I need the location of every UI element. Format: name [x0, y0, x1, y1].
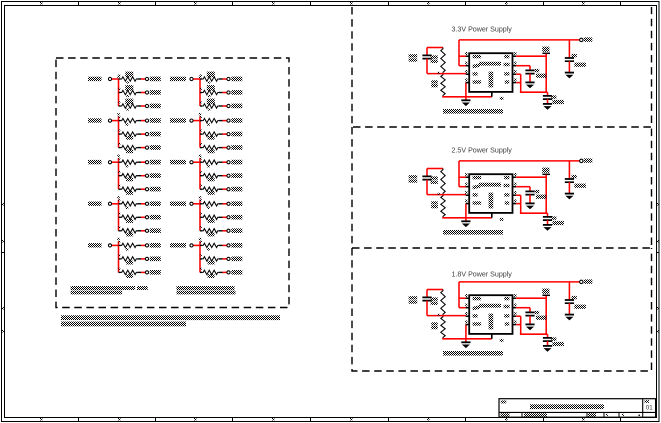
resistor R21 [200, 143, 219, 153]
node IN9 (input pin of resistor group 9) [88, 243, 112, 247]
ground (C2b) [525, 203, 534, 209]
wire (red trunk, group 9) [117, 238, 119, 273]
resistor R25 [200, 199, 219, 209]
capacitor C3d (input bulk, right) [565, 282, 586, 315]
wire (input to trunk, group 9) [112, 244, 119, 246]
wire (C1a top to divider top) [427, 47, 443, 49]
node OUT R11 [145, 215, 160, 220]
ground (C2d) [565, 194, 574, 200]
wire (R24 output) [219, 188, 227, 190]
wire (input rail, section 3) [459, 281, 580, 283]
1.8V supply enclosure (dashed) [352, 248, 652, 371]
wire (ground rail bottom, section 2) [442, 204, 492, 222]
node VIN3 (input pin) [580, 279, 593, 283]
node IN7 (input pin of resistor group 7) [88, 202, 112, 206]
wire (divider mid rail to U3 pin 3) [427, 314, 466, 316]
node OUT R16 [227, 77, 242, 82]
power flag VOUT1 [542, 47, 550, 54]
op-amp U3 (voltage regulator IC) [465, 294, 516, 334]
node OUT R15 [145, 270, 160, 275]
capacitor C3b (noise bypass) [525, 311, 546, 325]
wire (R27 output) [219, 230, 227, 232]
node IN8 (input pin of resistor group 8) [170, 202, 193, 206]
wire (R19 output) [219, 120, 227, 122]
wire (R8 output) [138, 175, 146, 177]
wire (input to trunk, group 4) [193, 120, 200, 122]
resistor array enclosure (dashed) [56, 58, 289, 308]
capacitor C3c (output bulk) [543, 334, 564, 346]
op-amp U1 (voltage regulator IC) [465, 52, 516, 92]
net label: U3 part number [443, 351, 503, 356]
node OUT R21 [227, 145, 242, 150]
node OUT R23 [227, 173, 242, 178]
resistor R11 [118, 213, 137, 223]
wire (input to trunk, group 6) [193, 161, 200, 163]
resistor R23 [200, 171, 219, 181]
wire (R6 output) [138, 147, 146, 149]
node OUT R5 [145, 132, 160, 137]
wire (input to trunk, group 10) [193, 244, 200, 246]
node OUT R4 [145, 118, 160, 123]
capacitor C2b (noise bypass) [525, 190, 546, 204]
wire (C2a top to divider top) [427, 168, 443, 170]
node IN2 (input pin of resistor group 2) [170, 77, 193, 81]
node OUT R20 [227, 132, 242, 137]
wire (output vertical, section 3) [545, 296, 547, 334]
wire (U3 pin 8 to output tap) [516, 297, 546, 299]
wire (R30 output) [219, 271, 227, 273]
node OUT R17 [227, 90, 242, 95]
resistor R30 [200, 268, 219, 278]
capacitor C1d (input bulk, right) [565, 40, 586, 73]
ground (section 1 left) [461, 100, 470, 106]
capacitor C1b (noise bypass) [525, 69, 546, 83]
wire (input rail, section 2) [459, 160, 580, 162]
wire (input to trunk, group 8) [193, 203, 200, 205]
wire (R12 output) [138, 230, 146, 232]
wire (input rail, section 1) [459, 39, 580, 41]
wire (R2 output) [138, 92, 146, 94]
resistor R2 [118, 85, 137, 97]
capacitor C1a (input bypass, left) [409, 48, 432, 74]
resistor R24 [200, 185, 219, 195]
wire (U2 pin 8 to output tap) [516, 176, 546, 178]
ground (C1b) [525, 82, 534, 88]
wire (R11 output) [138, 216, 146, 218]
node OUT R2 [145, 90, 160, 95]
wire (C3a top to divider top) [427, 289, 443, 291]
node VIN1 (input pin) [580, 37, 593, 41]
svg-text:2.5V Power Supply: 2.5V Power Supply [452, 147, 513, 155]
wire (R10 output) [138, 203, 146, 205]
node OUT R30 [227, 270, 242, 275]
capacitor C2a (input bypass, left) [409, 169, 432, 195]
svg-text:3.3V Power Supply: 3.3V Power Supply [452, 26, 513, 34]
resistor R8 [118, 171, 137, 181]
node IN5 (input pin of resistor group 5) [88, 160, 112, 164]
wire (U1 pin 8 to output tap) [516, 55, 546, 57]
node OUT R25 [227, 201, 242, 206]
resistor R16 [200, 72, 219, 84]
wire (red trunk, group 7) [117, 196, 119, 231]
wire (U1 tab to ground rail) [492, 92, 504, 100]
ground (C3d) [565, 315, 574, 321]
node OUT R24 [227, 187, 242, 192]
wire (red trunk, group 2) [199, 76, 201, 106]
capacitor C2d (input bulk, right) [565, 161, 586, 194]
wire (R16 output) [219, 78, 227, 80]
node OUT R14 [145, 257, 160, 262]
net label: U2 part number [443, 230, 503, 235]
resistor R13 [118, 241, 137, 251]
wire (R21 output) [219, 147, 227, 149]
ground (C1c) [543, 104, 552, 110]
wire (R7 output) [138, 161, 146, 163]
resistor R6 [118, 143, 137, 153]
node OUT R13 [145, 243, 160, 248]
wire (R14 output) [138, 258, 146, 260]
ground (section 2 left) [461, 221, 470, 227]
net label: U1 part number [443, 109, 503, 114]
wire (R28 output) [219, 244, 227, 246]
resistor R28 [200, 241, 219, 251]
wire (red trunk, group 10) [199, 238, 201, 273]
resistor R1b (divider bottom) [431, 74, 445, 97]
wire (input drop to U2 pins 1,2) [459, 161, 466, 187]
node IN6 (input pin of resistor group 6) [170, 160, 193, 164]
3.3V supply enclosure (dashed) [352, 7, 652, 127]
wire (U1 pins 5,6 to output rail) [516, 74, 547, 92]
resistor R1 [118, 72, 137, 84]
capacitor C2c (output bulk) [543, 213, 564, 225]
node OUT R22 [227, 160, 242, 165]
wire (input to trunk, group 5) [112, 161, 119, 163]
wire (ground rail bottom, section 3) [442, 325, 492, 343]
wire (R25 output) [219, 203, 227, 205]
wire (R22 output) [219, 161, 227, 163]
wire (U3 tab to ground rail) [492, 334, 504, 342]
wire (U2 pin 7 to C2b) [516, 187, 530, 192]
wire (R3 output) [138, 105, 146, 107]
net label: title block texts [501, 400, 654, 416]
wire (input drop to U3 pins 1,2) [459, 282, 466, 308]
wire (R29 output) [219, 258, 227, 260]
wire (U2 tab to ground rail) [492, 213, 504, 221]
node OUT R7 [145, 160, 160, 165]
node OUT R9 [145, 187, 160, 192]
resistor R29 [200, 254, 219, 264]
ground (C1d) [565, 73, 574, 79]
wire (R26 output) [219, 216, 227, 218]
value table text left [71, 286, 148, 294]
node OUT R3 [145, 104, 160, 109]
resistor R19 [200, 116, 219, 126]
net label: 1.8V title text [452, 271, 513, 279]
node IN10 (input pin of resistor group 10) [170, 243, 193, 247]
resistor R10 [118, 199, 137, 209]
wire (input to trunk, group 7) [112, 203, 119, 205]
resistor R18 [200, 99, 219, 111]
node OUT R6 [145, 145, 160, 150]
wire (U2 pins 5,6 to output rail) [516, 195, 547, 213]
node OUT R27 [227, 228, 242, 233]
resistor R5 [118, 130, 137, 140]
wire (input to trunk, group 2) [193, 78, 200, 80]
power flag VOUT3 [542, 289, 550, 296]
op-amp U2 (voltage regulator IC) [465, 173, 516, 213]
node OUT R26 [227, 215, 242, 220]
node OUT R1 [145, 77, 160, 82]
wire (input drop to U1 pins 1,2) [459, 40, 466, 66]
wire (R1 output) [138, 78, 146, 80]
wire (red trunk, group 1) [117, 76, 119, 106]
wire (R13 output) [138, 244, 146, 246]
resistor R2b (divider bottom) [431, 195, 445, 218]
wire (red trunk, group 5) [117, 155, 119, 190]
resistor R7 [118, 158, 137, 168]
node IN1 (input pin of resistor group 1) [88, 77, 112, 81]
resistor R2a (divider top) [431, 169, 446, 195]
node IN4 (input pin of resistor group 4) [170, 118, 193, 122]
power flag VOUT2 [542, 168, 550, 175]
resistor R9 [118, 185, 137, 195]
ground (C2c) [543, 225, 552, 231]
2.5V supply enclosure (dashed) [352, 127, 652, 248]
wire (R9 output) [138, 188, 146, 190]
capacitor C3a (input bypass, left) [409, 290, 432, 316]
node OUT R18 [227, 104, 242, 109]
net label: 2.5V title text [452, 147, 513, 155]
node OUT R8 [145, 173, 160, 178]
ground (section 3 left) [461, 342, 470, 348]
title block [499, 399, 656, 418]
resistor R26 [200, 213, 219, 223]
node OUT R19 [227, 118, 242, 123]
resistor R17 [200, 85, 219, 97]
resistor R3b (divider bottom) [431, 316, 445, 339]
wire (output vertical, section 1) [545, 54, 547, 92]
capacitor C1c (output bulk) [543, 92, 564, 104]
svg-text:1.8V Power Supply: 1.8V Power Supply [452, 271, 513, 279]
resistor R15 [118, 268, 137, 278]
wire (red trunk, group 4) [199, 113, 201, 148]
wire (output vertical, section 2) [545, 175, 547, 213]
wire (R5 output) [138, 133, 146, 135]
wire (U3 pin 7 to C3b) [516, 308, 530, 313]
wire (input to trunk, group 1) [112, 78, 119, 80]
resistor R3 [118, 99, 137, 111]
node OUT R12 [145, 228, 160, 233]
wire (R17 output) [219, 92, 227, 94]
resistor R22 [200, 158, 219, 168]
node OUT R10 [145, 201, 160, 206]
wire (red trunk, group 3) [117, 113, 119, 148]
ground (C3c) [543, 346, 552, 352]
node IN3 (input pin of resistor group 3) [88, 118, 112, 122]
wire (input to trunk, group 3) [112, 120, 119, 122]
wire (divider mid rail to U2 pin 3) [427, 193, 466, 195]
resistor R14 [118, 254, 137, 264]
wire (ground rail bottom, section 1) [442, 83, 492, 101]
value table text right [177, 286, 236, 294]
wire (R20 output) [219, 133, 227, 135]
wire (R4 output) [138, 120, 146, 122]
wire (red trunk, group 6) [199, 155, 201, 190]
resistor R27 [200, 226, 219, 236]
resistor R3a (divider top) [431, 290, 446, 316]
resistor R4 [118, 116, 137, 126]
net label: 3.3V title text [452, 26, 513, 34]
resistor R1a (divider top) [431, 48, 446, 74]
wire (red trunk, group 8) [199, 196, 201, 231]
wire (divider mid rail to U1 pin 3) [427, 72, 466, 74]
wire (R15 output) [138, 271, 146, 273]
wire (U1 pin 7 to C1b) [516, 66, 530, 71]
wire (R23 output) [219, 175, 227, 177]
wire (U3 pins 5,6 to output rail) [516, 316, 547, 334]
node OUT R29 [227, 257, 242, 262]
resistor R20 [200, 130, 219, 140]
ground (C3b) [525, 324, 534, 330]
node VIN2 (input pin) [580, 158, 593, 162]
wire (R18 output) [219, 105, 227, 107]
resistor R12 [118, 226, 137, 236]
node OUT R28 [227, 243, 242, 248]
svg-text:01: 01 [646, 405, 653, 412]
note text below enclosure [61, 315, 280, 326]
